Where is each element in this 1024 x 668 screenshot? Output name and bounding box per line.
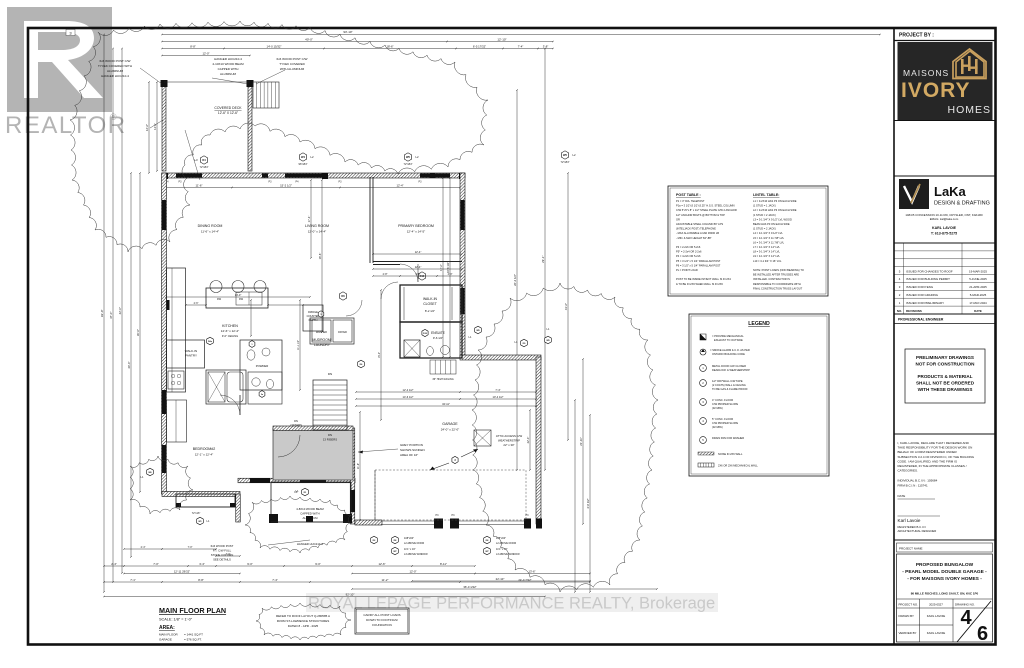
bedroom 2 front wall and bay window xyxy=(162,492,240,497)
svg-text:L3: L3 xyxy=(194,158,198,162)
svg-text:3'-0": 3'-0" xyxy=(226,553,231,556)
watermark: ROYAL LEPAGE PERFORMANCE REALTY xyxy=(306,593,718,612)
svg-text:1/2" DRYWALL C/W TAPE: 1/2" DRYWALL C/W TAPE xyxy=(712,379,743,383)
title block: drawing number 4 of 6 xyxy=(957,601,991,642)
svg-text:GARAGE: GARAGE xyxy=(442,422,458,426)
kitchen counters and island xyxy=(167,268,186,392)
svg-text:SCALE: 1/8" = 1'-0": SCALE: 1/8" = 1'-0" xyxy=(159,618,193,622)
svg-text:16'-6": 16'-6" xyxy=(318,253,322,260)
svg-text:12'-10": 12'-10" xyxy=(497,38,506,42)
svg-text:POST TO BE INSIDE INT/EXT WALL: POST TO BE INSIDE INT/EXT WALL IS IN 2X4 xyxy=(676,277,731,281)
ensuite xyxy=(400,322,462,358)
svg-text:5-JUNE-2025: 5-JUNE-2025 xyxy=(969,277,987,281)
svg-text:DRAWN BY: DRAWN BY xyxy=(899,614,915,618)
svg-text:HOMES: HOMES xyxy=(947,104,991,116)
svg-text:SHALL NOT BE ORDERED: SHALL NOT BE ORDERED xyxy=(916,381,975,386)
svg-text:12'-4" x 14'-5": 12'-4" x 14'-5" xyxy=(407,230,425,234)
svg-text:12'-4": 12'-4" xyxy=(415,250,422,254)
svg-text:ALUMINUM: ALUMINUM xyxy=(107,69,124,73)
svg-text:4'-8 1/2": 4'-8 1/2" xyxy=(586,498,590,508)
svg-text:24'-0 7/32": 24'-0 7/32" xyxy=(518,578,531,582)
svg-text:DN: DN xyxy=(294,419,298,423)
svg-text:= 576 SQ.FT.: = 576 SQ.FT. xyxy=(184,638,202,642)
svg-text:WITH ALUMINUM: WITH ALUMINUM xyxy=(280,67,305,71)
walk-in pantry xyxy=(167,340,205,368)
covered porch xyxy=(271,482,351,522)
title block: MAISONS IVORY HOMES logo xyxy=(898,42,993,120)
svg-text:22'-0": 22'-0" xyxy=(526,437,530,444)
svg-text:EXHAUST TO OUTSIDE: EXHAUST TO OUTSIDE xyxy=(714,338,743,342)
mudroom sunken area xyxy=(273,428,353,480)
svg-text:ONTARIO BUILDING CODE: ONTARIO BUILDING CODE xyxy=(712,352,745,356)
svg-text:ALUMINUM: ALUMINUM xyxy=(220,72,237,76)
svg-text:DATED 8 - APR - 2025: DATED 8 - APR - 2025 xyxy=(288,624,319,628)
svg-text:P5 = 3 1/4" x 5 1/4" PARALLAM: P5 = 3 1/4" x 5 1/4" PARALLAM POST xyxy=(676,259,721,263)
svg-text:METAL DOOR C/W CLOSER: METAL DOOR C/W CLOSER xyxy=(712,364,746,368)
svg-text:6'-5 17/32": 6'-5 17/32" xyxy=(473,45,486,49)
svg-text:41'-6": 41'-6" xyxy=(564,303,568,310)
svg-text:W4: W4 xyxy=(301,155,305,159)
svg-text:12'-6": 12'-6" xyxy=(153,123,157,130)
svg-text:CAPPED WITH: CAPPED WITH xyxy=(218,67,239,71)
svg-text:IVORY: IVORY xyxy=(901,79,971,102)
svg-text:6x6 WOOD POST C/W: 6x6 WOOD POST C/W xyxy=(100,59,131,63)
svg-text:DRAIN PAN FOR WASHER: DRAIN PAN FOR WASHER xyxy=(712,436,744,440)
svg-text:REGISTERED, IN THE APPROPRIATE: REGISTERED, IN THE APPROPRIATE CLASSES / xyxy=(898,464,967,468)
svg-text:12'-0" x 14'-4": 12'-0" x 14'-4" xyxy=(308,230,326,234)
svg-text:72"x84": 72"x84" xyxy=(561,160,570,164)
svg-text:REVISIONS: REVISIONS xyxy=(906,309,922,313)
svg-text:REALTOR: REALTOR xyxy=(5,112,127,139)
svg-text:7'-0": 7'-0" xyxy=(153,562,159,566)
svg-text:INSTALLED. CONTRACTOR IS: INSTALLED. CONTRACTOR IS xyxy=(753,277,790,281)
svg-text:- PEARL MODEL DOUBLE GARAGE -: - PEARL MODEL DOUBLE GARAGE - xyxy=(902,569,987,575)
svg-text:= 1441 SQ.FT: = 1441 SQ.FT xyxy=(184,633,203,637)
svg-text:KITCHEN: KITCHEN xyxy=(222,324,238,328)
svg-text:14'-6" x 12'-2": 14'-6" x 12'-2" xyxy=(221,329,239,333)
svg-text:13 RISERS: 13 RISERS xyxy=(323,438,337,442)
svg-text:MAIN FLOOR: MAIN FLOOR xyxy=(159,633,179,637)
svg-text:12'-4": 12'-4" xyxy=(415,265,422,269)
svg-text:5" CONC. FLOOR: 5" CONC. FLOOR xyxy=(712,417,733,421)
svg-text:L3 ABOVE WINDOW: L3 ABOVE WINDOW xyxy=(496,553,520,556)
svg-text:12'-1" x 12'-4": 12'-1" x 12'-4" xyxy=(195,453,213,457)
svg-text:2'-4": 2'-4" xyxy=(141,546,146,549)
svg-text:12'-6": 12'-6" xyxy=(378,562,385,566)
svg-text:26'-2 1/2": 26'-2 1/2" xyxy=(513,274,517,286)
svg-text:L1: L1 xyxy=(295,489,299,493)
svg-text:L3 = 3-1 3/4" X 9 1/2" LVL WOO: L3 = 3-1 3/4" X 9 1/2" LVL WOOD xyxy=(753,217,792,221)
svg-text:L6 = 3-1 3/4" X 11 7/8" LVL: L6 = 3-1 3/4" X 11 7/8" LVL xyxy=(753,240,785,244)
svg-text:WALK-IN: WALK-IN xyxy=(423,297,438,301)
svg-text:FOUNDATION: FOUNDATION xyxy=(372,623,392,627)
svg-text:6x6 WOOD POST C/W: 6x6 WOOD POST C/W xyxy=(277,57,308,61)
svg-text:17-MAY-2024: 17-MAY-2024 xyxy=(969,301,987,305)
svg-text:11'-1 1/2": 11'-1 1/2" xyxy=(297,340,300,350)
svg-text:NOTE: POINT LOADS (NON BEARING: NOTE: POINT LOADS (NON BEARING) TO xyxy=(753,268,804,272)
svg-text:13'-6": 13'-6" xyxy=(528,570,535,574)
svg-text:4-8X10 WOOD BEAM: 4-8X10 WOOD BEAM xyxy=(296,507,324,511)
svg-text:L8 = 3-1 3/4" X 14" LVL: L8 = 3-1 3/4" X 14" LVL xyxy=(753,250,781,254)
svg-text:HANGER HUC210-4: HANGER HUC210-4 xyxy=(214,57,242,61)
svg-text:9'-0": 9'-0" xyxy=(247,562,253,566)
svg-text:(2 COATS) WALL & CEILING: (2 COATS) WALL & CEILING xyxy=(712,383,746,387)
svg-text:WALK-IN: WALK-IN xyxy=(185,349,197,353)
svg-text:21'-11": 21'-11" xyxy=(579,437,583,445)
svg-text:POWDER: POWDER xyxy=(256,364,269,368)
svg-text:16'-6 1/2": 16'-6 1/2" xyxy=(446,262,450,273)
svg-text:15'-2": 15'-2" xyxy=(378,352,381,358)
svg-text:ATTIC ACCESS C/W: ATTIC ACCESS C/W xyxy=(496,434,523,438)
svg-text:W5: W5 xyxy=(406,155,410,159)
svg-text:21'-6": 21'-6" xyxy=(357,463,360,469)
svg-text:12'-0": 12'-0" xyxy=(409,570,416,574)
svg-text:72"x84": 72"x84" xyxy=(404,162,413,166)
powder room xyxy=(240,340,282,390)
dimension chains: top xyxy=(162,34,880,36)
title block: revision table xyxy=(894,250,996,252)
svg-text:I, KARL LAVOIE, DECLARE THAT I: I, KARL LAVOIE, DECLARE THAT I REVIEWED … xyxy=(898,441,970,445)
svg-text:KARL LAVOIE: KARL LAVOIE xyxy=(932,226,957,230)
title block: preliminary drawings note xyxy=(905,349,985,403)
svg-text:TO BE GAS & FLAME PROOF: TO BE GAS & FLAME PROOF xyxy=(712,387,748,391)
svg-text:11'-6": 11'-6" xyxy=(196,184,203,188)
svg-text:BEAM HAS P3 ON EACH SIDE: BEAM HAS P3 ON EACH SIDE xyxy=(753,222,790,226)
svg-text:DINING ROOM: DINING ROOM xyxy=(198,224,223,228)
svg-text:2 RISERS: 2 RISERS xyxy=(290,423,302,427)
svg-text:72"x16": 72"x16" xyxy=(192,512,201,515)
svg-text:MAISONS: MAISONS xyxy=(903,68,949,78)
svg-text:P1a = 3 1/2"x3 1/2"x3.25" H.S.: P1a = 3 1/2"x3 1/2"x3.25" H.S.S. STEEL C… xyxy=(676,204,735,208)
svg-text:9'-6 1/2": 9'-6 1/2" xyxy=(433,336,443,340)
svg-text:4: 4 xyxy=(960,607,972,629)
svg-text:TYVEK COVERED: TYVEK COVERED xyxy=(279,62,305,66)
svg-text:30'-0": 30'-0" xyxy=(136,329,140,336)
svg-text:18'-6": 18'-6" xyxy=(386,45,393,49)
left exterior wall xyxy=(162,173,167,494)
svg-text:22" x 30": 22" x 30" xyxy=(503,443,514,447)
svg-text:DRAWING NO.: DRAWING NO. xyxy=(955,603,975,607)
svg-text:PRODUCTS & MATERIAL: PRODUCTS & MATERIAL xyxy=(917,374,972,379)
svg-text:C/W PROPER SLOPE: C/W PROPER SLOPE xyxy=(712,421,738,425)
svg-text:(32 MPA): (32 MPA) xyxy=(712,425,723,429)
svg-text:40'-6": 40'-6" xyxy=(127,361,131,368)
dimension chains: left xyxy=(103,35,105,593)
svg-text:NOT FOR CONSTRUCTION: NOT FOR CONSTRUCTION xyxy=(916,362,976,367)
svg-text:L2 ABOVE DOOR: L2 ABOVE DOOR xyxy=(496,542,516,545)
svg-text:7'-4": 7'-4" xyxy=(495,388,500,392)
svg-text:P5* = 2-2x4 OR 2-2x6: P5* = 2-2x4 OR 2-2x6 xyxy=(676,250,702,254)
svg-text:8'-8": 8'-8" xyxy=(198,578,204,582)
legend xyxy=(689,314,829,476)
svg-text:(32 MPA): (32 MPA) xyxy=(712,406,723,410)
svg-text:D6: D6 xyxy=(341,294,345,298)
svg-text:L3 ABOVE WINDOW: L3 ABOVE WINDOW xyxy=(404,553,428,556)
svg-text:DN: DN xyxy=(328,372,332,376)
svg-text:14'-6 1/2": 14'-6 1/2" xyxy=(403,395,414,399)
svg-text:BEHALF OF A FIRM REGISTERED UN: BEHALF OF A FIRM REGISTERED UNDER xyxy=(898,450,958,454)
svg-text:47'-0": 47'-0" xyxy=(109,312,113,319)
svg-text:21-APR-2025: 21-APR-2025 xyxy=(969,285,987,289)
svg-text:4" CONC. FLOOR: 4" CONC. FLOOR xyxy=(712,398,733,402)
svg-text:93'-10": 93'-10" xyxy=(343,30,352,34)
svg-text:L5 = 3-1 3/4" X 11 7/8" LVL: L5 = 3-1 3/4" X 11 7/8" LVL xyxy=(753,236,785,240)
covered deck xyxy=(162,82,166,171)
note: carry all point loads xyxy=(355,608,409,634)
svg-text:INDIVIDUAL B.C.I.N : 105684: INDIVIDUAL B.C.I.N : 105684 xyxy=(898,479,938,483)
svg-text:SUBSECTION 3.2.4 OF DIVISION C: SUBSECTION 3.2.4 OF DIVISION C, OF THE B… xyxy=(898,455,975,459)
svg-text:ISSUED FOR BUILDING PERMIT: ISSUED FOR BUILDING PERMIT xyxy=(906,277,950,281)
house front wall above porch xyxy=(238,478,355,483)
svg-text:92'-10": 92'-10" xyxy=(346,593,355,597)
svg-text:& TO BE IN 2X6 WHEN WALL IS IN: & TO BE IN 2X6 WHEN WALL IS IN 2X6 xyxy=(676,282,723,286)
svg-text:HANGER HUC210-4: HANGER HUC210-4 xyxy=(101,74,129,78)
svg-text:C/W 5"x5"x 8" x 1/2" STEEL PLA: C/W 5"x5"x 8" x 1/2" STEEL PLATE C/W 2 A… xyxy=(676,208,737,212)
laundry washer dryer xyxy=(310,318,354,344)
revision cloud: right side xyxy=(472,283,658,592)
svg-text:ISSUED FOR P.ENG: ISSUED FOR P.ENG xyxy=(906,285,934,289)
svg-text:®: ® xyxy=(110,112,117,122)
svg-text:19-MAR-2025: 19-MAR-2025 xyxy=(969,269,987,273)
svg-text:- MAX ALLOWABLE LOAD 36000 LB: - MAX ALLOWABLE LOAD 36000 LB xyxy=(676,231,719,235)
svg-text:PROJECT NAME: PROJECT NAME xyxy=(899,547,922,551)
svg-text:12'-4": 12'-4" xyxy=(396,184,403,188)
svg-text:LaKa: LaKa xyxy=(934,184,967,199)
svg-text:CODE. I AM QUALIFIED, AND THE: CODE. I AM QUALIFIED, AND THE FIRM IS xyxy=(898,459,957,463)
svg-text:L1 = 3-2X10 HAS P3 ON EACH SID: L1 = 3-2X10 HAS P3 ON EACH SIDE xyxy=(753,199,797,203)
svg-text:3'-4": 3'-4" xyxy=(199,562,205,566)
svg-text:COUNTER: COUNTER xyxy=(307,314,320,318)
svg-text:10'-4 1/2": 10'-4 1/2" xyxy=(493,395,504,399)
svg-text:L2: L2 xyxy=(310,155,314,159)
svg-text:VERIFIED BY: VERIFIED BY xyxy=(899,631,917,635)
svg-text:92'-0": 92'-0" xyxy=(100,309,104,317)
svg-text:42'-6": 42'-6" xyxy=(118,307,122,314)
svg-text:D4: D4 xyxy=(202,158,206,162)
svg-text:8'-11": 8'-11" xyxy=(440,562,447,566)
revision cloud: porch note xyxy=(245,496,352,553)
svg-text:96"x84": 96"x84" xyxy=(299,162,308,166)
svg-text:L10 = 3-1 3/4" X 16" LVL: L10 = 3-1 3/4" X 16" LVL xyxy=(753,259,782,263)
svg-text:NO.: NO. xyxy=(897,309,902,313)
svg-text:4-10X10 WOOD BEAM: 4-10X10 WOOD BEAM xyxy=(212,62,244,66)
svg-text:ISSUED FOR CHANGES TO ROOF: ISSUED FOR CHANGES TO ROOF xyxy=(906,269,953,273)
svg-text:36'-0 1/32": 36'-0 1/32" xyxy=(463,585,476,589)
svg-text:(1 STUD = 1 JACK): (1 STUD = 1 JACK) xyxy=(753,204,776,208)
garage front wall with doors xyxy=(355,520,382,525)
svg-text:FROM ST-LAWRENCE STRUCTURES: FROM ST-LAWRENCE STRUCTURES xyxy=(277,619,330,623)
svg-text:PRELIMINARY DRAWINGS: PRELIMINARY DRAWINGS xyxy=(916,355,974,360)
svg-text:24'-0" x 22'-0": 24'-0" x 22'-0" xyxy=(441,428,459,432)
watermark: REALTOR logo xyxy=(5,7,127,139)
svg-text:W5: W5 xyxy=(563,153,567,157)
svg-text:8'-2 1/2": 8'-2 1/2" xyxy=(425,309,435,313)
svg-text:ISSUED FOR PRELIMINARY: ISSUED FOR PRELIMINARY xyxy=(906,301,944,305)
svg-text:1/2" ANCHOR BOLTS @ BOTTOM & T: 1/2" ANCHOR BOLTS @ BOTTOM & TOP xyxy=(676,213,725,217)
svg-text:ALUMINUM: ALUMINUM xyxy=(303,516,319,520)
svg-text:LAUNDRY: LAUNDRY xyxy=(314,343,331,347)
svg-text:ADJUSTABLE STEEL COLUMN BY LPS: ADJUSTABLE STEEL COLUMN BY LPS xyxy=(676,222,723,226)
svg-text:L2: L2 xyxy=(572,153,576,157)
svg-text:22'-10": 22'-10" xyxy=(496,577,505,581)
svg-text:PL = POINT LOAD: PL = POINT LOAD xyxy=(676,268,698,272)
svg-text:(1 STUD = 2 JACK): (1 STUD = 2 JACK) xyxy=(753,227,776,231)
svg-text:REFER TO ROOF LAYOUT Q-280585: REFER TO ROOF LAYOUT Q-280585 A xyxy=(276,614,330,618)
revision cloud: deck area xyxy=(70,21,488,252)
svg-text:EMAIL: kal@laka.com: EMAIL: kal@laka.com xyxy=(930,217,959,221)
svg-text:T: 613-875-5275: T: 613-875-5275 xyxy=(931,232,957,236)
svg-text:6x6 WOOD POST: 6x6 WOOD POST xyxy=(211,544,234,548)
interior wall living/bedroom xyxy=(369,177,371,263)
svg-text:AREA OF 16": AREA OF 16" xyxy=(400,453,418,457)
svg-text:11'-2": 11'-2" xyxy=(382,578,389,582)
svg-text:2'-6": 2'-6" xyxy=(194,302,199,305)
svg-text:(1 STUD = 2 JACK): (1 STUD = 2 JACK) xyxy=(753,213,776,217)
svg-text:14'-0": 14'-0" xyxy=(235,293,242,297)
svg-text:C/W PROPER SLOPE: C/W PROPER SLOPE xyxy=(712,402,738,406)
svg-text:L2 ABOVE DOOR: L2 ABOVE DOOR xyxy=(404,542,424,545)
svg-text:CARRY ALL POINT LOADS: CARRY ALL POINT LOADS xyxy=(363,613,400,617)
mudroom right wall xyxy=(350,428,355,524)
svg-text:FIRM B.C.I.N : 115741: FIRM B.C.I.N : 115741 xyxy=(898,484,928,488)
svg-text:2'-4": 2'-4" xyxy=(111,562,117,566)
svg-text:GARAGE: GARAGE xyxy=(159,638,172,642)
svg-text:ROYAL LEPAGE PERFORMANCE REALT: ROYAL LEPAGE PERFORMANCE REALTY, Brokera… xyxy=(308,595,715,613)
svg-text:- FOR MAISONS IVORY HOMES -: - FOR MAISONS IVORY HOMES - xyxy=(907,576,982,582)
svg-text:7'-4": 7'-4" xyxy=(272,578,278,582)
svg-text:11'1" x 16": 11'1" x 16" xyxy=(404,548,416,551)
svg-text:ISSUED FOR GRADING: ISSUED FOR GRADING xyxy=(906,293,939,297)
svg-text:FRIDGE: FRIDGE xyxy=(308,310,318,314)
svg-text:36" HIGH RAILING: 36" HIGH RAILING xyxy=(432,378,453,381)
revision cloud: bay window xyxy=(130,456,193,514)
svg-text:P3 = 2-2x6 OR 5.2x6: P3 = 2-2x6 OR 5.2x6 xyxy=(676,245,701,249)
svg-text:11'-6" x 14'-4": 11'-6" x 14'-4" xyxy=(201,230,219,234)
svg-text:NOISE IN 2X6 WALL: NOISE IN 2X6 WALL xyxy=(718,452,743,456)
svg-text:86 MILLE ROCHES, LONG SAULT, O: 86 MILLE ROCHES, LONG SAULT, ON, K0C 1P0 xyxy=(911,592,979,596)
svg-text:L4 = 3-1 3/4" X 9 1/2" LVL: L4 = 3-1 3/4" X 9 1/2" LVL xyxy=(753,231,783,235)
svg-text:5-MAR-2025: 5-MAR-2025 xyxy=(970,293,987,297)
svg-text:29'-1": 29'-1" xyxy=(541,256,545,263)
svg-text:WEATHERSTRIP: WEATHERSTRIP xyxy=(498,439,520,443)
svg-text:COVERED DECK: COVERED DECK xyxy=(214,106,242,110)
walk-in closet xyxy=(400,284,460,286)
svg-text:TAKE RESPONSIBILITY FOR THE DE: TAKE RESPONSIBILITY FOR THE DESIGN WORK … xyxy=(898,446,973,450)
svg-text:ARCHITECTURAL DESIGNER: ARCHITECTURAL DESIGNER xyxy=(898,529,937,533)
svg-text:PROPOSED BUNGALOW: PROPOSED BUNGALOW xyxy=(916,562,974,568)
garage right wall xyxy=(536,357,541,524)
dimension chains: right xyxy=(516,90,518,470)
svg-text:72"x84": 72"x84" xyxy=(200,165,209,169)
svg-text:12'-11 29/32": 12'-11 29/32" xyxy=(174,570,190,574)
svg-text:7'-1": 7'-1" xyxy=(130,578,136,582)
svg-text:SEE DETAILS: SEE DETAILS xyxy=(213,558,231,562)
svg-text:108"x84": 108"x84" xyxy=(404,537,414,540)
svg-text:DN: DN xyxy=(328,433,332,437)
svg-text:P6 = 3 1/2" x 5 1/4" PARALLAM: P6 = 3 1/2" x 5 1/4" PARALLAM POST xyxy=(676,263,721,267)
svg-text:2X6 OR 2X6 MECHANICAL WALL: 2X6 OR 2X6 MECHANICAL WALL xyxy=(718,464,758,468)
svg-text:PROFESSIONAL ENGINEER: PROFESSIONAL ENGINEER xyxy=(898,318,944,322)
post table and lintel table xyxy=(668,186,828,296)
svg-text:MAIN FLOOR PLAN: MAIN FLOOR PLAN xyxy=(159,606,226,615)
top exterior wall xyxy=(162,173,465,178)
note: refer to roof layout xyxy=(256,603,351,640)
window/door tags above top wall xyxy=(200,156,207,164)
garage rear wall xyxy=(460,355,541,360)
svg-text:CLOSET: CLOSET xyxy=(423,302,437,306)
svg-text:LIVING ROOM: LIVING ROOM xyxy=(305,224,329,228)
svg-text:34'-11": 34'-11" xyxy=(442,402,450,406)
svg-text:15'-2 1/2": 15'-2 1/2" xyxy=(280,184,292,188)
right exterior wall xyxy=(460,173,465,358)
svg-text:6'-0": 6'-0" xyxy=(416,273,421,276)
svg-text:12'-0": 12'-0" xyxy=(202,52,209,56)
svg-text:OR: OR xyxy=(676,217,680,221)
svg-text:PROJECT BY :: PROJECT BY : xyxy=(899,33,934,39)
svg-text:P4 = 4-2x6 OR 5-2x6: P4 = 4-2x6 OR 5-2x6 xyxy=(676,254,701,258)
svg-text:LEGEND: LEGEND xyxy=(748,321,770,327)
svg-text:40'-0": 40'-0" xyxy=(305,38,313,42)
svg-text:P1 = 3" DIA. TELEPOST: P1 = 3" DIA. TELEPOST xyxy=(676,199,705,203)
svg-text:14'-0 15/32": 14'-0 15/32" xyxy=(267,45,282,49)
svg-text:POST TABLE :: POST TABLE : xyxy=(676,193,701,197)
svg-text:7'-4": 7'-4" xyxy=(518,45,524,49)
svg-text:17'-2": 17'-2" xyxy=(439,264,443,271)
svg-text:MUDROOM/: MUDROOM/ xyxy=(312,338,331,342)
svg-text:DATE: DATE xyxy=(974,309,982,313)
svg-text:TYVEK COVERED WITH: TYVEK COVERED WITH xyxy=(98,64,132,68)
svg-text:(INTELJACK POST) TELEPHONE: (INTELJACK POST) TELEPHONE xyxy=(676,227,716,231)
svg-text:DOWN TO FOOTINGS/: DOWN TO FOOTINGS/ xyxy=(366,618,398,622)
svg-text:KARL LAVOIE: KARL LAVOIE xyxy=(927,631,946,635)
svg-text:= SMOKE ALARM & C.O. AS PER: = SMOKE ALARM & C.O. AS PER xyxy=(710,348,750,352)
wall bedroom to porch xyxy=(236,494,241,522)
svg-text:SHOWS SUNKEN: SHOWS SUNKEN xyxy=(400,448,425,452)
svg-text:L2: L2 xyxy=(415,155,419,159)
svg-text:7'-0": 7'-0" xyxy=(188,546,193,549)
svg-text:DATE: DATE xyxy=(898,494,906,498)
svg-text:17'-4": 17'-4" xyxy=(307,216,311,223)
svg-text:GREY PORTION: GREY PORTION xyxy=(400,443,423,447)
svg-text:CATEGORIES.: CATEGORIES. xyxy=(898,469,918,473)
svg-text:L2 = 3-2X10 HAS P3 ON EACH SID: L2 = 3-2X10 HAS P3 ON EACH SIDE xyxy=(753,208,797,212)
title block: PROJECT BY strip xyxy=(894,40,996,42)
svg-text:KARL LAVOIE: KARL LAVOIE xyxy=(927,614,946,618)
svg-text:PANTRY: PANTRY xyxy=(185,354,197,358)
svg-text:2'-8": 2'-8" xyxy=(383,273,388,276)
svg-text:9'-0": 9'-0" xyxy=(315,562,321,566)
svg-text:12'-6": 12'-6" xyxy=(145,124,149,131)
svg-text:9'-0" CEILING: 9'-0" CEILING xyxy=(222,334,238,338)
svg-text:8'-8": 8'-8" xyxy=(190,45,196,49)
svg-text:AREA:: AREA: xyxy=(159,625,175,631)
staircase xyxy=(313,380,347,430)
svg-text:WITH THESE DRAWINGS: WITH THESE DRAWINGS xyxy=(918,387,973,392)
bedroom closet wall xyxy=(373,261,462,263)
dimension chains: bottom xyxy=(104,581,162,583)
svg-text:2025-0527: 2025-0527 xyxy=(929,603,943,607)
svg-text:L9 = 3-1 3/4" X 14" LVL: L9 = 3-1 3/4" X 14" LVL xyxy=(753,254,781,258)
svg-text:L7 = 3-1 3/4" X 14" LVL: L7 = 3-1 3/4" X 14" LVL xyxy=(753,245,781,249)
title block: LaKa Design & Drafting xyxy=(899,179,929,209)
svg-text:CAPPED WITH: CAPPED WITH xyxy=(300,512,319,516)
svg-text:= PROVIDE MECHANICAL: = PROVIDE MECHANICAL xyxy=(712,334,744,338)
svg-text:PROJECT NO.: PROJECT NO. xyxy=(899,603,919,607)
svg-text:Karl Lavoie: Karl Lavoie xyxy=(898,518,921,523)
svg-text:DRYER: DRYER xyxy=(338,331,347,334)
main bathroom xyxy=(206,370,246,404)
svg-text:DEADLOCK & WEATHERSTRIP: DEADLOCK & WEATHERSTRIP xyxy=(712,368,750,372)
